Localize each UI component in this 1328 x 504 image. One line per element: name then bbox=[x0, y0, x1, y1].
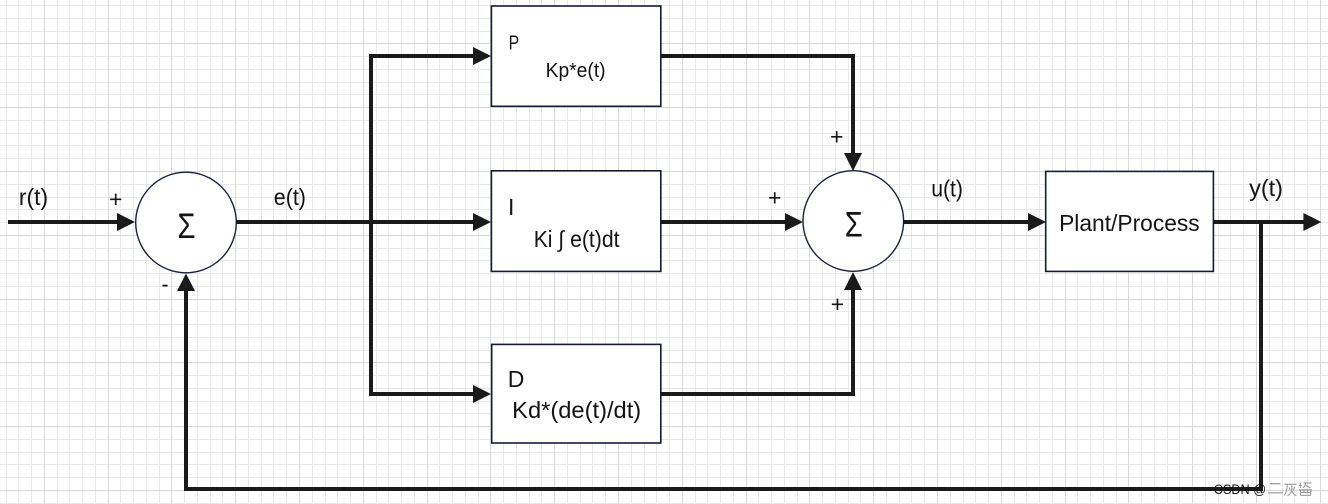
watermark glyph jiang bbox=[1299, 483, 1312, 496]
wire arrow into P bbox=[473, 47, 491, 65]
summing junction S2 bbox=[803, 171, 904, 272]
svg-text:y(t): y(t) bbox=[1249, 175, 1283, 201]
summing junction S1 bbox=[136, 172, 237, 273]
watermark glyph hui bbox=[1284, 484, 1297, 496]
watermark glyph er (two strokes) bbox=[1268, 484, 1283, 493]
svg-text:Plant/Process: Plant/Process bbox=[1059, 210, 1200, 236]
block D bbox=[492, 344, 661, 443]
block P bbox=[491, 6, 660, 106]
svg-text:+: + bbox=[109, 186, 122, 212]
svg-text:r(t): r(t) bbox=[19, 184, 48, 210]
wire u(t) bbox=[904, 213, 1046, 231]
svg-text:+: + bbox=[768, 185, 781, 211]
svg-text:Σ: Σ bbox=[845, 206, 863, 245]
wire e(t) bbox=[237, 213, 492, 231]
svg-text:u(t): u(t) bbox=[931, 176, 963, 202]
svg-text:Kd*(de(t)/dt): Kd*(de(t)/dt) bbox=[512, 397, 641, 423]
svg-text:Ki ∫ e(t)dt: Ki ∫ e(t)dt bbox=[534, 226, 620, 252]
wire y(t) output bbox=[1213, 213, 1321, 231]
svg-text:+: + bbox=[831, 291, 844, 317]
wire D output to S2 bbox=[661, 272, 862, 394]
svg-text:Kp*e(t): Kp*e(t) bbox=[546, 60, 606, 82]
wire P output to S2 bbox=[661, 56, 862, 171]
svg-text:Σ: Σ bbox=[178, 207, 196, 246]
svg-text:e(t): e(t) bbox=[274, 184, 306, 210]
node branch vertical with corners to P and D bbox=[371, 56, 474, 394]
wire arrow into D bbox=[473, 385, 491, 403]
wire r(t) input bbox=[8, 213, 135, 231]
svg-text:D: D bbox=[508, 366, 525, 392]
svg-text:I: I bbox=[508, 194, 514, 220]
wire I output to S2 bbox=[661, 213, 803, 231]
svg-text:-: - bbox=[162, 271, 169, 297]
svg-text:CSDN @: CSDN @ bbox=[1214, 482, 1266, 497]
svg-text:P: P bbox=[509, 33, 519, 55]
block Plant/Process bbox=[1046, 171, 1214, 271]
block I bbox=[491, 171, 660, 272]
svg-text:+: + bbox=[830, 124, 843, 150]
wire feedback loop bbox=[177, 222, 1261, 489]
